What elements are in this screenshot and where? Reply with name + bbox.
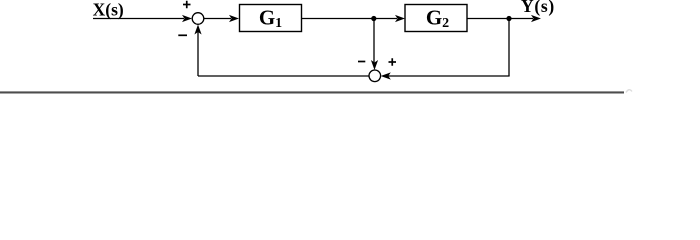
wire S2 output to left [198, 75, 369, 77]
block G1 [240, 5, 302, 32]
node A junction dot between G1 and G2 [371, 16, 376, 21]
wire left vertical up into S1 [194, 25, 201, 77]
wire node A down into S2 [371, 19, 378, 71]
label X(s) [93, 0, 124, 19]
wire S1 to G1 [204, 15, 239, 22]
wire G1 to G2 [302, 15, 406, 22]
wire bottom right into summing junction S2 [381, 72, 510, 79]
label Y(s) [521, 0, 555, 16]
horizontal rule at page bottom [0, 91, 624, 93]
plus sign at S2 [389, 58, 397, 66]
wire node B down to bottom feedback line [508, 19, 510, 77]
minus sign at S2 [358, 61, 365, 63]
svg-text:X(s): X(s) [93, 0, 124, 19]
node B junction dot after G2 [506, 16, 511, 21]
faint scan artifact right of rule [626, 90, 632, 93]
minus sign at S1 [178, 34, 187, 36]
summing junction S1 [192, 13, 204, 25]
summing junction S2 [369, 70, 381, 82]
wire input to summing junction S1 [93, 15, 192, 22]
svg-text:Y(s): Y(s) [521, 0, 555, 16]
block G2 [405, 5, 467, 32]
plus sign at S1 [183, 1, 191, 9]
wire G2 to output Y(s) [467, 15, 541, 22]
